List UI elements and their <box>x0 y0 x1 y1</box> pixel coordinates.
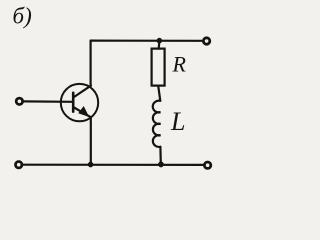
terminal input bottom-left <box>16 162 22 168</box>
wire emitter down <box>90 117 92 164</box>
node junction bottom inductor <box>158 162 163 167</box>
node junction bottom emitter <box>88 162 93 167</box>
terminal input top-left <box>16 98 22 104</box>
wire resistor to inductor <box>158 86 160 101</box>
inductor L coil <box>153 101 161 147</box>
resistor R <box>152 49 165 86</box>
terminal output top-right <box>203 38 209 44</box>
wire top rail <box>91 39 202 41</box>
svg-text:L: L <box>170 107 185 136</box>
wire bottom rail <box>23 164 203 166</box>
node junction top <box>157 38 162 43</box>
emitter arrowhead <box>79 107 88 116</box>
terminal output bottom-right <box>204 162 210 168</box>
svg-text:б): б) <box>13 4 32 29</box>
transistor base bar <box>72 93 75 112</box>
svg-text:R: R <box>172 52 187 77</box>
transistor collector stroke <box>74 86 91 97</box>
wire base lead <box>24 100 73 103</box>
wire inductor to bottom rail <box>159 147 162 165</box>
transistor emitter stroke <box>74 108 91 118</box>
transistor VT1 <box>61 84 98 121</box>
wire to resistor <box>158 41 161 49</box>
wire collector up <box>89 41 91 86</box>
